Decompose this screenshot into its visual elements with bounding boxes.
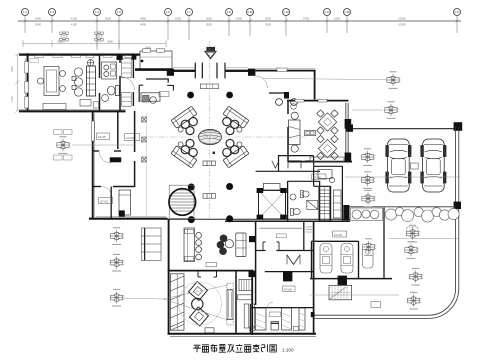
parking label small box [407,227,418,231]
column dot row2 left [188,184,195,191]
svg-text:1950: 1950 [236,17,243,21]
svg-text:1900: 1900 [175,17,182,21]
sconce square 2 [142,137,147,142]
KTV tv console [227,290,233,320]
bathroom toilet [300,191,309,198]
KTV left wall [168,219,170,335]
bathroom wall x319 [319,181,321,221]
floor box 2 [203,194,215,199]
interior wall y151 [93,150,121,152]
floor box 1 [203,161,215,166]
NW room left wall [26,54,28,113]
elevation symbol right 3 [361,149,375,166]
svg-text:3900: 3900 [10,66,14,72]
grid bubble 1-10 [247,9,254,37]
elevator shaft [257,183,287,219]
sconce square 1 [142,117,147,122]
dimension texts above wall [57,40,151,50]
room upper small rects [276,234,286,238]
KTV leader diagonals [120,285,228,320]
stall left wall [249,304,251,334]
centerline horizontal lobby axis [148,136,305,138]
facade jog wall down [314,70,316,100]
elevation symbol left-bottom 2 [110,254,124,271]
bathroom sink [290,194,296,200]
closet lower right of NW room [122,93,132,107]
left dimension line [15,53,19,113]
tea room south wall [225,220,350,222]
svg-text:2450: 2450 [35,17,42,21]
svg-text:2000: 2000 [105,17,112,21]
stall niche table [271,322,279,331]
mahjong room bottom wall [288,161,352,163]
detail symbol B at top [95,31,103,43]
KTV dashed speaker boxes [227,283,233,325]
door arc small room [101,187,112,198]
wall y250.5 with door opening [256,250,314,252]
grid bubble 1-12 [283,9,290,37]
massage table 2 [341,244,353,274]
thick black bar storage [110,157,121,162]
facade window tab [277,68,287,72]
svg-text:3650: 3650 [206,17,213,21]
mahjong plant [291,104,297,110]
terrace black pier [343,205,349,220]
svg-text:3300: 3300 [265,17,272,21]
parking label box [411,163,419,169]
grid dimension texts [35,17,406,27]
svg-text:1-12: 1-12 [283,10,289,14]
NW room left wall window hatch [25,62,28,109]
window band upper rooms [306,227,312,232]
corridor double doors [287,255,300,265]
svg-text:4150: 4150 [71,23,78,27]
black block at massage wall [338,276,347,285]
tiny label box massage [333,231,347,237]
wall x278 vertical [278,155,280,171]
mahjong room right window wall [345,103,352,162]
lobby center rug [199,129,222,144]
parking north wall [347,128,461,130]
corridor black cabinet [283,271,292,281]
massage room walls [312,241,359,278]
door arc NW room to hall [122,77,135,90]
leader line right y110 [352,109,383,111]
parking north wall posts [346,122,462,132]
small cabinet NW room [93,102,98,108]
terrace wall with planters [350,206,457,208]
grid bubble 1-1 [22,9,29,34]
KTV right wall [251,270,253,335]
mahjong center table [305,131,316,136]
svg-text:1-17: 1-17 [454,10,460,14]
stall corner boxes [250,326,299,330]
stall door arc [268,302,274,308]
tiny label box 1F-08 [283,286,295,291]
NW room right wall x120 [119,55,121,112]
grid bubble labels [23,10,460,14]
KTV carpet circle [179,282,222,325]
equipment room shelves [238,279,255,328]
elevation symbol right-bottom 2 [409,268,423,285]
colonnade line lobby south [167,218,350,220]
stone pots terrace [351,208,383,221]
spa bed right [363,247,373,268]
corridor wall y268 [265,271,314,273]
svg-text:3650: 3650 [206,23,213,27]
black block ktv corner [249,271,256,278]
mahjong room top wall [287,99,349,102]
sconce square 3 [142,157,147,162]
elevation symbol right 4 [361,172,375,189]
KTV diamond table 1 [188,282,207,301]
svg-text:1F-06: 1F-06 [313,175,321,179]
svg-text:4150: 4150 [71,17,78,21]
wall x111 lower room [110,187,112,219]
svg-text:4450: 4450 [140,23,147,27]
hall east wall column [132,55,137,60]
tiny label box terrace [371,302,381,308]
svg-text:1-6: 1-6 [166,10,170,14]
detail symbol A at top [60,31,68,43]
KTV round stool [192,298,203,309]
west wall window hatch [92,121,95,141]
elevation symbol left mid [57,137,71,154]
tiny label texts [98,135,342,292]
stall pier 2 [282,308,292,330]
svg-text:1-7: 1-7 [187,10,191,14]
facade wall right [255,69,315,71]
reception desk back panel [139,85,143,102]
stairs beside elevator [319,187,330,221]
vestibule black block [284,92,289,99]
secondary dimension line above left building [23,43,166,45]
svg-text:3300: 3300 [265,23,272,27]
bathroom top wall y181 [288,180,320,182]
spa block wall x330-350 [314,156,343,221]
entrance wall right of doors [225,70,248,72]
svg-text:10050: 10050 [398,23,406,27]
corridor lounge bracket [305,161,314,169]
entrance wall left of doors [174,70,195,72]
mahjong sofa [289,112,301,152]
car 1 [386,139,411,192]
grid tick marks [24,20,459,23]
centerline vertical entrance axis [209,41,211,218]
mahjong table 1 [317,110,338,134]
elevation symbol right 2 [385,102,399,119]
grid bubble 1-14 [324,9,331,34]
lobby floor edge line [146,113,148,216]
KTV right wall x236 [235,270,237,334]
entrance door panels [195,63,225,79]
NW room interior wall x99 [99,55,101,112]
column dot row2 right [226,183,233,190]
mid block east wall x313 [313,222,315,335]
small room black square [119,210,125,216]
tiny label box 1F-04 [125,134,140,141]
entrance left column [167,69,174,76]
planter screen outside [141,228,161,260]
tiny label box 1F-06 [312,174,326,179]
hall east wall x133 [132,55,134,106]
door arc at right column [256,76,268,88]
vestibule round column [276,99,283,106]
tea area round table set [217,235,233,255]
svg-text:1850: 1850 [334,17,341,21]
NW room top wall [19,53,140,55]
dining table square frame [169,185,194,218]
entry step mat [200,84,218,89]
NW room small box [80,100,91,107]
elevation symbol left-bottom 3 [110,289,124,306]
KTV left seat band [170,274,184,330]
site boundary black post [454,202,461,209]
NW section bottom wall [19,110,126,112]
tea area table [184,228,202,262]
tiny label box hall [159,92,169,97]
svg-text:1-4: 1-4 [95,10,99,14]
reception counter [135,49,172,70]
NW room desk [37,67,65,96]
svg-text:1F-08: 1F-08 [284,288,292,292]
grid bubble 1-6 [165,9,172,41]
NW room sideboard [43,104,66,110]
interior wall y186 [93,186,135,188]
mid block east wall x255 [255,221,257,305]
elevation symbol left text boxes [54,130,72,160]
counter line upper room [260,227,303,229]
svg-text:2880: 2880 [107,40,113,44]
KTV diamond table 2 [189,307,208,326]
stall niche label [269,312,281,316]
grid bubbles and stems [22,9,461,51]
black block wall x313 [311,312,315,317]
svg-text:1:100: 1:100 [282,348,294,353]
tiny label box 1F-05 [97,133,110,139]
trees row [385,207,459,222]
tiny black square lobby [213,152,215,154]
svg-text:1-5: 1-5 [117,10,121,14]
elevation symbol left-bottom 1 [110,228,124,245]
NW room bench sofa [87,66,96,96]
leader line bottom row [310,294,399,296]
bathroom wall x287 [287,181,289,221]
KTV top wall [168,270,253,272]
dining round table [167,189,196,216]
column dot row1 right [226,92,233,99]
car 2 [421,139,446,192]
west wall mid section [93,111,95,219]
svg-text:1-2: 1-2 [50,10,54,14]
lobby sofa group bottom-right [223,139,249,168]
reception desk hall [141,93,160,103]
leader line left symbol [72,144,136,146]
wc toilet [107,86,119,96]
massage south wall [310,278,392,280]
column dot row3 right [226,215,233,222]
site boundary bottom [313,315,429,318]
wall x304 upper rooms [303,221,305,251]
KTV bottom wall [168,334,316,337]
bottom wall left section [89,217,168,219]
door arc corridor y151 [99,151,111,163]
closet upper right of NW room [122,58,132,78]
tea area sofa [236,233,246,257]
shower stall [290,200,317,215]
column dot row1 left [187,92,194,99]
svg-text:3750: 3750 [303,17,310,21]
wall return below counter [146,79,168,83]
lobby sofa group bottom-left [171,139,197,168]
entrance right column [248,69,255,76]
NW room lounge chairs [72,68,83,96]
grid bubble 1-7 [186,9,193,41]
small room bed [119,190,131,215]
mahjong room left wall [287,100,289,162]
svg-text:1F-04: 1F-04 [126,136,134,140]
grid bubble 1-5 [116,9,123,51]
stall top wall y307.5 [250,307,314,309]
site boundary right [456,126,459,288]
title 平面布置及立面索引图 [193,344,294,352]
KTV speakers bottom [205,328,214,333]
svg-text:1F-09: 1F-09 [334,233,342,237]
svg-text:10050: 10050 [398,17,406,21]
leader line y177 [345,176,460,178]
svg-text:1-15: 1-15 [344,10,350,14]
grid bubble 1-2 [49,9,56,34]
elevation symbol right-bottom 3 [407,292,421,309]
NW room top wall window sills [35,56,134,58]
door jamb brackets [263,242,279,250]
grid bubble 1-15 [344,9,351,34]
grid main line [18,20,461,22]
lobby sofa group top-right [223,106,249,135]
elevation symbol parking bottom [406,225,420,242]
elevation symbol massage right [362,239,376,256]
svg-text:1F-05: 1F-05 [98,135,106,139]
svg-text:4450: 4450 [140,17,147,21]
vestibule wall y97 [269,92,288,94]
grid bubble 1-17 [454,9,461,34]
tea area black cabinet [249,236,255,242]
lower stairs [329,285,352,299]
spa lounge [318,170,341,218]
elevation symbol right-bottom 1 [405,242,419,259]
interior wall x134 [134,111,136,187]
counter left dot [141,60,144,63]
svg-text:1-8: 1-8 [227,10,231,14]
svg-text:1-1: 1-1 [23,10,27,14]
KTV door brackets top [198,271,217,277]
svg-text:1F-03: 1F-03 [100,199,108,203]
interior wall x117 [117,111,119,149]
grid bubble 1-4 [94,9,101,51]
vestibule round column 2 [291,99,298,106]
leader line right y78 [262,78,386,79]
svg-text:1-14: 1-14 [324,10,330,14]
grid bubble 1-8 [226,9,233,37]
svg-text:2100: 2100 [10,96,14,102]
corridor lounge U bench [288,161,301,169]
elevation symbol terrace [362,190,376,207]
mahjong table 2 [317,135,338,159]
tiny label box 1F-03 [99,198,113,204]
svg-text:2450: 2450 [35,23,42,27]
NW room corner column [117,55,123,60]
stall pier 3 [299,308,305,330]
entry arrow symbol [205,47,216,59]
stall pier 1 [256,308,267,330]
lobby sofa group top-left [171,106,197,135]
site boundary corner arc [429,288,459,318]
tiny label box tea [206,262,217,266]
wc sink [102,95,109,102]
rooms above elevator wall y155 [278,155,314,157]
corridor V door [272,161,279,169]
rooms above elevator wall y171 [256,170,320,172]
left dimension ticks text [10,66,14,102]
pantry counter and sink [102,62,117,79]
NW room corner label [30,59,39,63]
svg-text:1-10: 1-10 [247,10,253,14]
ceiling fan symbol NW room [87,60,93,66]
mahjong sideboard [310,157,344,162]
elevation symbol right top [387,72,401,89]
column dot row3 left [188,216,195,223]
right bracket hall [167,85,173,90]
massage table 1 [320,244,332,274]
